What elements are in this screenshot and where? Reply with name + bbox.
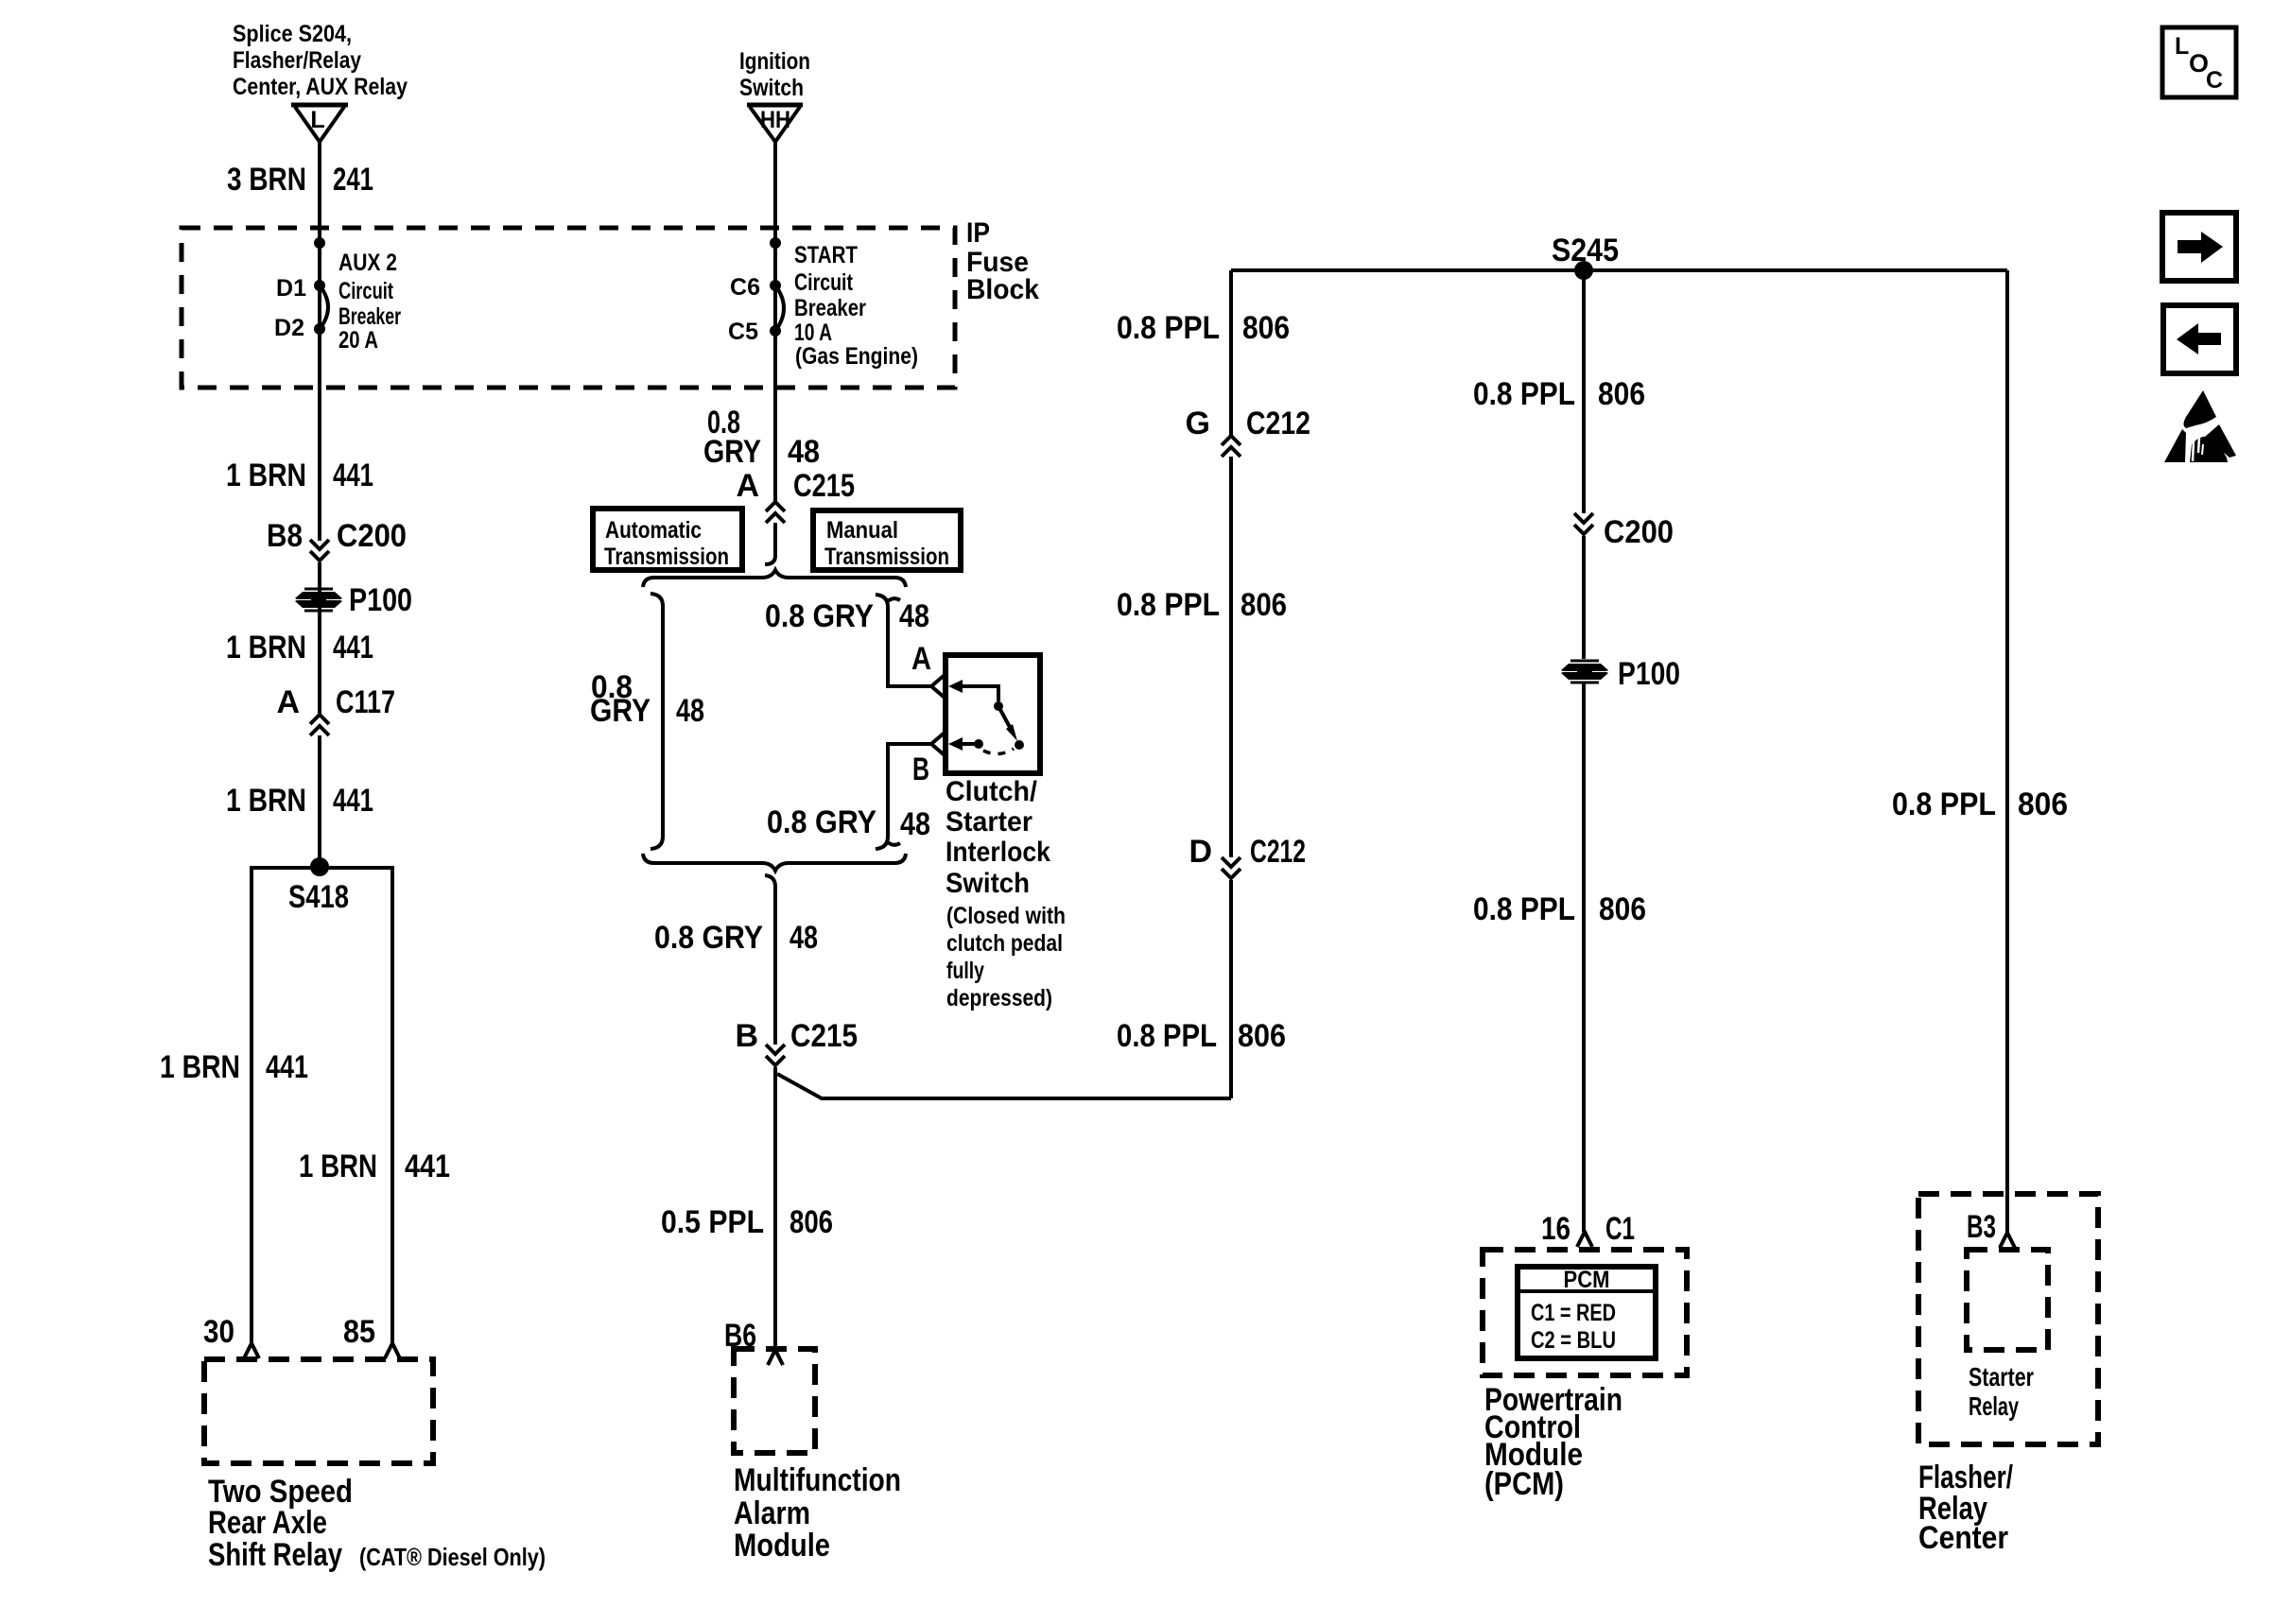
Multifunction Alarm Module dashed box	[734, 1349, 815, 1453]
icon right arrow box	[2162, 213, 2236, 281]
off-page connector triangle HH	[747, 105, 803, 142]
svg-text:441: 441	[333, 630, 373, 665]
svg-text:AUX 2: AUX 2	[338, 250, 397, 276]
branch wire to PPL 806 run	[777, 1074, 1231, 1098]
wire S245 down to starter relay	[2005, 270, 2009, 1233]
svg-text:IP: IP	[966, 217, 990, 249]
svg-text:48: 48	[789, 920, 818, 956]
svg-text:Flasher/Relay: Flasher/Relay	[233, 47, 361, 74]
connector C200 pin B8 chevrons	[310, 540, 329, 561]
PCM connector legend box	[1518, 1267, 1656, 1358]
manual path bottom right hook	[888, 842, 900, 845]
svg-text:Module: Module	[734, 1528, 830, 1564]
svg-text:PCM: PCM	[1564, 1267, 1610, 1293]
circuit breaker AUX 2 arc	[320, 285, 328, 329]
terminal D1	[314, 280, 325, 291]
Automatic Transmission box	[593, 509, 742, 570]
svg-text:Circuit: Circuit	[794, 269, 854, 296]
wire below C117 to S418	[318, 735, 321, 867]
svg-text:1 BRN: 1 BRN	[226, 783, 306, 819]
svg-text:C200: C200	[337, 518, 407, 554]
svg-text:20 A: 20 A	[338, 327, 378, 354]
label Multifunction Alarm Module	[734, 1462, 901, 1564]
svg-text:Transmission: Transmission	[604, 544, 729, 570]
icon ESD warning triangle	[2164, 390, 2236, 462]
svg-text:0.8 GRY: 0.8 GRY	[767, 804, 876, 840]
terminal C5	[770, 325, 781, 337]
svg-text:806: 806	[1242, 310, 1290, 346]
svg-text:806: 806	[1599, 891, 1646, 927]
svg-text:Manual: Manual	[826, 517, 898, 544]
svg-text:Starter: Starter	[946, 806, 1032, 838]
svg-text:D1: D1	[276, 275, 306, 302]
svg-text:depressed): depressed)	[946, 985, 1052, 1011]
svg-text:0.5 PPL: 0.5 PPL	[661, 1204, 764, 1240]
svg-text:B8: B8	[267, 518, 303, 554]
svg-text:GRY: GRY	[703, 434, 761, 470]
Starter Relay dashed box	[1967, 1250, 2048, 1350]
junction node on wire 241	[314, 237, 325, 249]
manual path wire from switch pin B	[876, 744, 931, 849]
IP fuse block dashed box	[182, 228, 955, 388]
svg-text:C215: C215	[790, 1018, 858, 1054]
svg-text:Splice S204,: Splice S204,	[233, 21, 352, 47]
svg-text:Breaker: Breaker	[794, 295, 866, 321]
svg-text:Center: Center	[1918, 1520, 2008, 1556]
wire S245 down to C212 G	[1229, 270, 1233, 436]
svg-text:48: 48	[900, 806, 930, 842]
label Starter Relay	[1969, 1362, 2034, 1421]
splice S418	[310, 857, 329, 876]
Manual Transmission box	[813, 510, 961, 570]
label Flasher/Relay Center	[1918, 1460, 2013, 1556]
svg-text:0.8 PPL: 0.8 PPL	[1117, 1018, 1217, 1054]
svg-text:Starter: Starter	[1969, 1362, 2034, 1391]
terminal fork at switch pin A	[931, 675, 945, 698]
icon left arrow box	[2163, 305, 2236, 373]
terminal C6	[770, 280, 781, 291]
svg-text:Interlock: Interlock	[946, 837, 1050, 868]
label Powertrain Control Module (PCM)	[1484, 1382, 1622, 1502]
connector C117 pin A chevrons	[310, 715, 329, 735]
PCM dashed box	[1483, 1250, 1687, 1375]
svg-text:806: 806	[789, 1204, 833, 1240]
svg-text:A: A	[736, 468, 759, 504]
grommet P100 (right)	[1561, 661, 1608, 682]
svg-text:START: START	[794, 242, 858, 268]
svg-text:C117: C117	[336, 684, 395, 720]
wire P100 down to PCM pin 16	[1582, 682, 1586, 1232]
svg-text:C1 = RED: C1 = RED	[1531, 1300, 1616, 1326]
svg-text:fully: fully	[946, 958, 984, 984]
switch contact B arrow	[948, 737, 983, 751]
svg-text:441: 441	[405, 1149, 450, 1184]
brace merging two paths	[643, 854, 906, 871]
svg-text:L: L	[2175, 33, 2189, 60]
svg-text:L: L	[310, 107, 324, 133]
connector C215 pin B chevrons	[766, 1045, 785, 1065]
wire S245 down to PCM	[1582, 270, 1586, 513]
svg-text:0.8 PPL: 0.8 PPL	[1892, 786, 1996, 822]
svg-text:806: 806	[1238, 1018, 1286, 1054]
svg-text:A: A	[276, 684, 300, 720]
label AUX 2 Circuit Breaker 20 A	[338, 250, 401, 354]
svg-text:Circuit: Circuit	[338, 278, 393, 304]
svg-text:P100: P100	[349, 582, 412, 618]
svg-text:48: 48	[899, 598, 929, 634]
svg-text:Block: Block	[966, 274, 1039, 305]
junction node on START feed	[770, 237, 781, 249]
svg-text:HH: HH	[760, 107, 790, 133]
terminal fork B6	[768, 1350, 783, 1365]
label START Circuit Breaker 10 A (Gas Engine)	[794, 242, 918, 370]
svg-text:0.8 GRY: 0.8 GRY	[654, 920, 763, 956]
svg-text:0.8 PPL: 0.8 PPL	[1117, 587, 1220, 623]
svg-text:806: 806	[1241, 587, 1287, 623]
wire between C212 G and D	[1229, 457, 1233, 857]
wire: ignition switch down through fuse block	[773, 142, 777, 502]
wire below C200	[318, 562, 321, 715]
svg-text:P100: P100	[1618, 656, 1680, 692]
svg-text:48: 48	[788, 434, 820, 470]
switch movable contact arm	[998, 706, 1024, 750]
clutch/starter interlock switch box	[946, 655, 1040, 773]
circuit breaker START arc	[775, 285, 784, 331]
svg-text:48: 48	[676, 693, 704, 729]
svg-text:G: G	[1186, 406, 1210, 441]
svg-text:0.8 PPL: 0.8 PPL	[1473, 891, 1575, 927]
svg-text:D: D	[1189, 834, 1212, 870]
svg-text:D2: D2	[274, 315, 304, 341]
svg-text:Switch: Switch	[946, 868, 1030, 899]
svg-text:806: 806	[2018, 786, 2068, 822]
svg-text:B3: B3	[1967, 1209, 1996, 1245]
wire below C212 D to corner	[1229, 880, 1233, 1098]
Two Speed Rear Axle Shift Relay dashed box	[204, 1359, 433, 1463]
off-page connector triangle L	[291, 105, 348, 142]
Flasher/Relay Center dashed box	[1918, 1194, 2098, 1444]
svg-text:Automatic: Automatic	[605, 517, 702, 544]
label IP Fuse Block	[966, 217, 1039, 305]
wire S245 horizontal run	[1231, 268, 2007, 272]
terminal fork PCM pin 16	[1577, 1232, 1592, 1247]
svg-text:85: 85	[343, 1314, 375, 1350]
svg-text:Center, AUX Relay: Center, AUX Relay	[233, 74, 408, 100]
label 0.8 GRY 48 (automatic path)	[590, 669, 704, 729]
svg-text:0.8 PPL: 0.8 PPL	[1117, 310, 1220, 346]
manual path top right hook	[888, 598, 900, 601]
terminal D2	[314, 323, 325, 335]
terminal fork at switch pin B	[931, 733, 945, 755]
label Clutch/Starter Interlock Switch	[946, 776, 1066, 1011]
grommet P100 (left)	[295, 589, 342, 611]
svg-text:A: A	[911, 641, 931, 677]
wire stub below C215 with curl	[765, 523, 775, 564]
svg-text:806: 806	[1598, 376, 1645, 412]
svg-text:B: B	[735, 1018, 758, 1054]
connector C212 pin D chevrons	[1222, 857, 1241, 878]
svg-text:0.8 PPL: 0.8 PPL	[1473, 376, 1575, 412]
brace splitting wire 48 into two paths	[643, 570, 906, 587]
connector C215 pin A chevrons	[766, 502, 785, 523]
svg-text:Alarm: Alarm	[734, 1495, 810, 1531]
svg-text:C212: C212	[1246, 406, 1310, 441]
terminal fork 30	[244, 1343, 259, 1358]
svg-text:1 BRN: 1 BRN	[299, 1149, 377, 1184]
label Two Speed Rear Axle Shift Relay	[208, 1474, 546, 1573]
wire below C215 B to alarm module	[773, 1067, 777, 1350]
svg-text:30: 30	[203, 1314, 234, 1350]
svg-text:C: C	[2206, 67, 2223, 94]
svg-text:3 BRN: 3 BRN	[227, 162, 306, 198]
svg-text:B: B	[912, 752, 929, 787]
svg-text:clutch pedal: clutch pedal	[946, 930, 1063, 957]
svg-text:C6: C6	[730, 274, 760, 301]
svg-text:(PCM): (PCM)	[1484, 1466, 1564, 1502]
svg-text:10 A: 10 A	[794, 320, 832, 346]
wire C200 to P100	[1582, 536, 1586, 659]
svg-text:1 BRN: 1 BRN	[160, 1049, 240, 1085]
svg-text:1 BRN: 1 BRN	[226, 630, 306, 665]
svg-text:Shift Relay: Shift Relay	[208, 1537, 342, 1573]
label 0.8 GRY 48 (below fuse block)	[703, 405, 820, 470]
svg-text:(CAT® Diesel Only): (CAT® Diesel Only)	[359, 1543, 546, 1571]
svg-text:C1: C1	[1605, 1211, 1635, 1247]
svg-text:0.8 GRY: 0.8 GRY	[765, 598, 874, 634]
svg-text:(Closed with: (Closed with	[946, 903, 1066, 929]
switch dashed travel arc	[983, 749, 1014, 754]
svg-text:Ignition: Ignition	[739, 48, 810, 75]
svg-text:Multifunction: Multifunction	[734, 1462, 901, 1498]
svg-text:C200: C200	[1604, 514, 1674, 550]
wire below merge brace with curl	[765, 875, 775, 1045]
svg-text:441: 441	[266, 1049, 308, 1085]
node L: Splice S204 source label	[233, 21, 408, 100]
wire: triangle L down to fuse block	[318, 142, 321, 541]
svg-text:1 BRN: 1 BRN	[226, 458, 306, 493]
svg-text:C215: C215	[793, 468, 855, 504]
svg-text:16: 16	[1541, 1211, 1570, 1247]
svg-text:C2 = BLU: C2 = BLU	[1531, 1327, 1616, 1354]
manual path wire to switch pin A	[876, 595, 931, 686]
svg-text:GRY: GRY	[590, 693, 651, 729]
svg-text:Rear Axle: Rear Axle	[208, 1505, 327, 1541]
svg-text:C212: C212	[1250, 834, 1306, 870]
Ignition Switch label	[739, 48, 810, 101]
svg-text:241: 241	[333, 162, 373, 198]
svg-text:(Gas Engine): (Gas Engine)	[795, 343, 918, 370]
svg-text:441: 441	[333, 458, 373, 493]
svg-text:S418: S418	[288, 879, 349, 915]
svg-text:Clutch/: Clutch/	[946, 776, 1038, 807]
svg-text:Breaker: Breaker	[338, 303, 401, 330]
connector C200 chevrons (PCM feed)	[1574, 513, 1593, 534]
svg-text:Transmission: Transmission	[824, 544, 949, 570]
terminal fork 85	[385, 1343, 400, 1358]
automatic path wire (with end curls)	[651, 594, 663, 849]
switch contact A arrow	[948, 680, 1003, 711]
icon LOC box	[2162, 27, 2236, 97]
svg-text:Relay: Relay	[1969, 1391, 2019, 1421]
connector C212 pin G chevrons	[1222, 436, 1241, 457]
wire loop from S418 to relay terminals 30 and 85	[252, 868, 392, 1343]
terminal fork B3	[2000, 1233, 2015, 1248]
svg-text:Switch: Switch	[739, 75, 804, 101]
svg-text:441: 441	[333, 783, 373, 819]
svg-text:C5: C5	[728, 319, 758, 345]
